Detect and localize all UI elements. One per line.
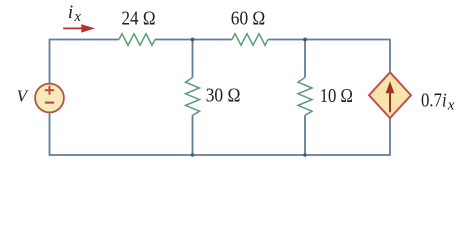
voltage source minus sign — [45, 102, 54, 104]
dependent source arrow shaft — [389, 93, 391, 113]
resistor R1 24 ohm zigzag — [119, 34, 155, 46]
resistor R4 10 ohm zigzag — [298, 78, 312, 116]
dependent source arrow head — [386, 81, 395, 93]
svg-text:30 Ω: 30 Ω — [206, 84, 241, 106]
voltage source plus sign — [45, 86, 54, 95]
voltage source V1 circle — [35, 84, 64, 113]
wire: middle branch 1 lower stub — [192, 115, 194, 155]
svg-text:x: x — [447, 98, 455, 114]
current label ix arrow shaft — [63, 27, 82, 29]
svg-text:i: i — [68, 2, 73, 23]
resistor R2 60 ohm zigzag — [232, 34, 268, 46]
wire: left branch top (source to top-left corner) and top wire to 24ohm — [50, 40, 120, 85]
svg-text:x: x — [74, 9, 82, 25]
wire: below diamond, bottom wire, and left branch bottom — [50, 113, 391, 156]
svg-text:60 Ω: 60 Ω — [231, 8, 265, 30]
current label ix arrow head — [81, 24, 95, 32]
junction dot bottom middle branch 1 — [191, 153, 194, 156]
svg-text:0.7i: 0.7i — [421, 89, 447, 111]
resistor R3 30 ohm zigzag — [186, 78, 200, 116]
wire: top between 24ohm and 60ohm — [155, 39, 232, 41]
wire: middle branch 2 upper stub — [304, 40, 306, 78]
wire: middle branch 2 lower stub — [304, 115, 306, 155]
svg-text:10 Ω: 10 Ω — [320, 85, 353, 107]
junction dot top middle branch 2 — [303, 38, 307, 42]
junction dot bottom middle branch 2 — [303, 153, 306, 156]
svg-text:24 Ω: 24 Ω — [122, 8, 156, 30]
junction dot top middle branch 1 — [191, 38, 195, 42]
dependent current source diamond — [369, 72, 411, 118]
wire: top from 60ohm to top-right corner and down to diamond — [268, 40, 390, 74]
wire: middle branch 1 upper stub — [192, 40, 194, 78]
